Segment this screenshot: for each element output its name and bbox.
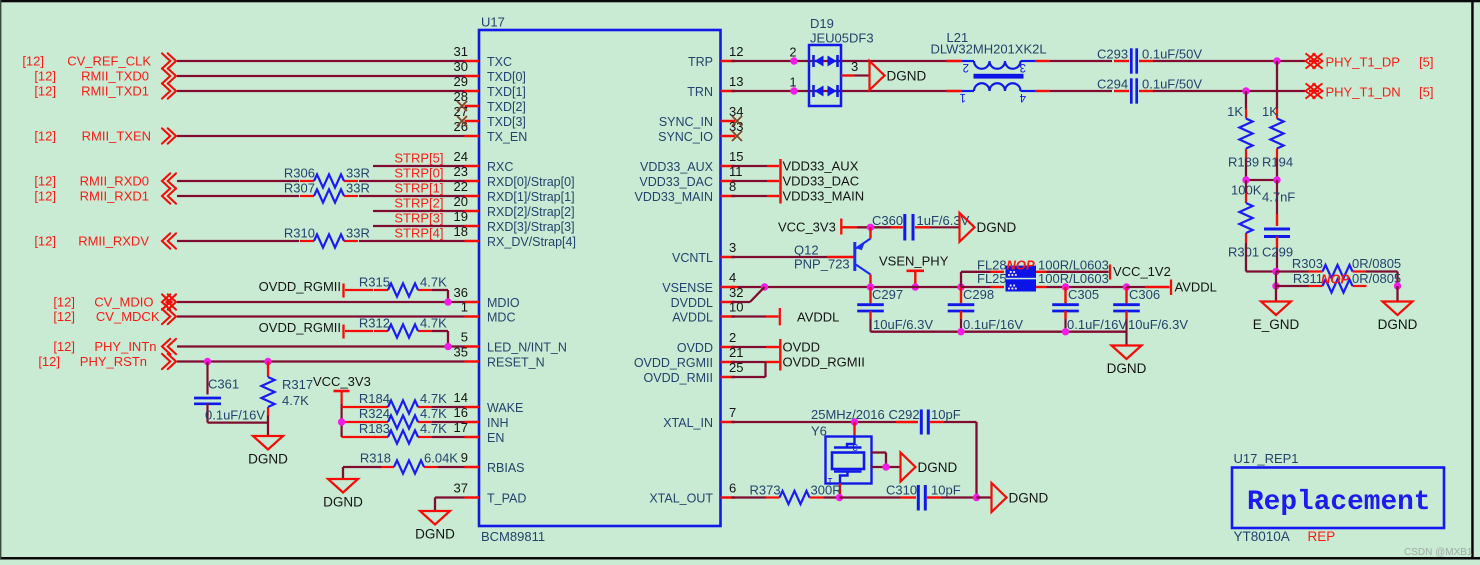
svg-text:VDD33_DAC: VDD33_DAC [639, 175, 713, 189]
svg-text:RESET_N: RESET_N [487, 356, 545, 370]
junction VSENSE/DVDDL [761, 283, 768, 290]
resistor R306 33R [300, 180, 314, 182]
pin 27 TXD[3] (left) [465, 120, 480, 123]
svg-text:[12]: [12] [22, 54, 44, 69]
resistor R301 100K [1245, 180, 1247, 193]
svg-text:1: 1 [790, 76, 797, 90]
junction D19 pin2 [790, 57, 797, 64]
svg-text:TXD[0]: TXD[0] [487, 70, 526, 84]
pin 3 D19 to ground [841, 74, 855, 76]
capacitor C305 0.1uF/16V [1064, 287, 1066, 303]
capacitor C293 0.1uF/50V [1114, 60, 1129, 62]
svg-text:TRN: TRN [687, 85, 713, 99]
junction Y6 case [882, 463, 889, 470]
wire R301 bottom [1245, 243, 1247, 272]
no-connect X pin 27 [457, 116, 467, 126]
svg-text:YT8010A: YT8010A [1234, 529, 1290, 544]
svg-text:15: 15 [729, 149, 743, 164]
pin 2 OVDD (right) [721, 346, 736, 349]
capacitor C299 4.7nF [1276, 180, 1278, 214]
svg-text:[12]: [12] [34, 174, 56, 189]
svg-text:10uF/6.3V: 10uF/6.3V [873, 317, 933, 332]
svg-text:CV_REF_CLK: CV_REF_CLK [67, 54, 151, 69]
svg-text:0.1uF/16V: 0.1uF/16V [1067, 317, 1127, 332]
wire VCC_3V3 node [857, 226, 891, 228]
svg-text:R324: R324 [359, 406, 390, 421]
svg-text:MDIO: MDIO [487, 296, 520, 310]
svg-text:FL25: FL25 [977, 271, 1007, 286]
svg-text:RXD[0]/Strap[0]: RXD[0]/Strap[0] [487, 175, 575, 189]
wire RMII_TXD0 [177, 75, 465, 77]
wire C310 right [941, 496, 977, 498]
junction 100K row right [1273, 176, 1280, 183]
svg-text:[12]: [12] [53, 295, 75, 310]
svg-text:EN: EN [487, 431, 504, 445]
svg-text:DGND: DGND [1009, 490, 1049, 505]
svg-text:DVDDL: DVDDL [671, 296, 713, 310]
svg-text:VDD33_DAC: VDD33_DAC [783, 174, 860, 189]
pin 22 RXD[1]/Strap[1] (left) [465, 195, 480, 198]
wire rail mid [871, 286, 962, 288]
wire to DGND right column [1396, 286, 1398, 302]
resistor R324 4.7K [374, 421, 388, 423]
svg-text:SYNC_IO: SYNC_IO [658, 130, 713, 144]
capacitor C361 0.1uF/16V [206, 362, 208, 395]
ground DGND (R318) [328, 479, 358, 493]
svg-text:C298: C298 [963, 287, 994, 302]
wire CV_REF_CLK [177, 60, 465, 62]
svg-text:T_PAD: T_PAD [487, 492, 526, 506]
pin 19 RXD[3]/Strap[3] (left) [465, 225, 480, 228]
wire CV_MDIO [177, 301, 465, 303]
svg-text:CV_MDIO: CV_MDIO [94, 295, 153, 310]
svg-text:DGND: DGND [918, 460, 958, 475]
svg-text:2: 2 [790, 46, 797, 60]
pin 17 EN (left) [465, 436, 480, 439]
pin 31 TXC (left) [465, 60, 480, 63]
svg-text:9: 9 [461, 450, 468, 465]
power flag AVDDL (rail) [1170, 280, 1172, 296]
svg-text:TRP: TRP [688, 55, 713, 69]
svg-text:R189: R189 [1228, 155, 1259, 170]
pin 23 RXD[0]/Strap[0] (left) [465, 180, 480, 183]
pin 18 RX_DV/Strap[4] (left) [465, 240, 480, 243]
svg-text:4.7K: 4.7K [282, 393, 309, 408]
pin 4 VSENSE (right) [721, 286, 736, 289]
svg-text:31: 31 [454, 44, 468, 59]
wire TRP mid [1050, 60, 1112, 62]
pin 10 AVDDL (right) [721, 315, 736, 318]
svg-text:[12]: [12] [34, 129, 56, 144]
junction rail C306 [1123, 283, 1130, 290]
svg-text:AVDDL: AVDDL [672, 311, 713, 325]
svg-text:36: 36 [454, 285, 468, 300]
svg-text:SYNC_IN: SYNC_IN [659, 115, 713, 129]
svg-text:OVDD_RGMII: OVDD_RGMII [259, 279, 341, 294]
resistor R312 4.7K [374, 330, 388, 332]
svg-text:XTAL_OUT: XTAL_OUT [649, 492, 713, 506]
svg-text:4.7K: 4.7K [420, 316, 447, 331]
wire decoupling ground bus [871, 331, 1127, 333]
svg-text:VDD33_AUX: VDD33_AUX [640, 160, 714, 174]
capacitor C294 0.1uF/50V [1114, 90, 1129, 92]
svg-text:CSDN @MXB1: CSDN @MXB1 [1404, 547, 1473, 558]
svg-text:4.7K: 4.7K [420, 421, 447, 436]
junction VCC_3V3 / C360 / Q12 [867, 224, 874, 231]
svg-text:25MHz/2016: 25MHz/2016 [811, 407, 885, 422]
wire TRN mid [1050, 90, 1112, 92]
pin 36 MDIO (left) [465, 301, 480, 304]
no-connect X pin 33 [732, 131, 742, 141]
pin 5 LED_N/INT_N (left) [465, 345, 480, 348]
ferrite bead FL28 100R/L0603 (NOP) [1006, 266, 1037, 278]
svg-text:LED_N/INT_N: LED_N/INT_N [487, 341, 567, 355]
pin 28 TXD[2] (left) [465, 105, 480, 108]
svg-text:OVDD_RGMII: OVDD_RGMII [634, 356, 713, 370]
svg-text:VSEN_PHY: VSEN_PHY [879, 254, 949, 269]
svg-text:4: 4 [729, 270, 736, 285]
svg-text:C360: C360 [872, 213, 903, 228]
wire RMII_RXD0 left [177, 180, 299, 182]
junction C310/C292 ground [973, 494, 980, 501]
svg-text:VDD33_MAIN: VDD33_MAIN [783, 189, 865, 204]
ground DGND (C361/R317) [253, 436, 283, 450]
svg-text:C292: C292 [889, 407, 920, 422]
svg-text:DGND: DGND [1378, 317, 1418, 332]
svg-text:0.1uF/16V: 0.1uF/16V [205, 408, 265, 423]
ground DGND (crystal caps) [992, 483, 1007, 512]
svg-text:2: 2 [729, 330, 736, 345]
svg-text:7: 7 [729, 405, 736, 420]
svg-text:4.7nF: 4.7nF [1262, 190, 1295, 205]
svg-text:TX_EN: TX_EN [487, 130, 527, 144]
junction R312/LED_N [444, 343, 451, 350]
svg-text:R373: R373 [750, 483, 781, 498]
svg-text:TXD[1]: TXD[1] [487, 85, 526, 99]
wire rail into FL25 [961, 286, 991, 288]
svg-text:RXC: RXC [487, 160, 513, 174]
svg-text:[12]: [12] [34, 84, 56, 99]
svg-text:C293: C293 [1097, 47, 1128, 62]
wire VDD33_DAC [732, 180, 768, 182]
svg-text:0R/0805: 0R/0805 [1352, 271, 1401, 286]
svg-text:RX_DV/Strap[4]: RX_DV/Strap[4] [487, 235, 576, 249]
svg-text:[5]: [5] [1419, 55, 1433, 70]
ground DGND (R311) [1383, 302, 1413, 316]
svg-text:14: 14 [454, 390, 468, 405]
resistor R315 4.7K [374, 289, 388, 291]
junction R311 right [1394, 282, 1401, 289]
svg-text:AVDDL: AVDDL [797, 310, 839, 325]
diode D19 JEU05DF3 (ESD) [809, 45, 841, 106]
wire C361 to ground [208, 421, 269, 423]
svg-text:3: 3 [1020, 61, 1026, 73]
pin 13 TRN (right) [721, 90, 736, 93]
ground DGND (Y6 case) [901, 453, 916, 482]
wire OVDD_RGMII [732, 361, 766, 363]
op-amp U17 IC body BCM89811 [479, 30, 721, 526]
svg-text:10pF: 10pF [931, 407, 961, 422]
svg-text:TXC: TXC [487, 55, 512, 69]
wire RMII_RXD0 right [359, 180, 465, 182]
svg-text:C294: C294 [1097, 77, 1128, 92]
resistor R318 6.04K [380, 466, 394, 468]
svg-text:STRP[0]: STRP[0] [394, 166, 443, 181]
wire R315 to MDIO [432, 289, 448, 291]
pin 9 RBIAS (left) [465, 466, 480, 469]
svg-text:OVDD_RMII: OVDD_RMII [644, 371, 713, 385]
pin 12 TRP (right) [721, 60, 736, 63]
wire TRP left [732, 60, 963, 62]
svg-text:1K: 1K [1227, 104, 1243, 119]
wire RMII_RXD1 right [359, 195, 465, 197]
no-connect X pin 34 [732, 116, 742, 126]
power flag VDD33 bar [779, 159, 782, 204]
svg-text:R318: R318 [360, 451, 391, 466]
capacitor C292 10pF [896, 421, 918, 423]
junction TRP / R194 [1273, 57, 1280, 64]
wire C292 to corner [944, 421, 977, 423]
ground DGND (T_PAD) [420, 511, 450, 525]
wire R312 to LED_N [432, 330, 448, 332]
svg-text:1K: 1K [1262, 104, 1278, 119]
wire PHY_RSTn [177, 360, 465, 362]
junction D19 pin1 [790, 87, 797, 94]
junction rail C298 [957, 283, 964, 290]
svg-text:WAKE: WAKE [487, 401, 523, 415]
svg-text:3: 3 [852, 441, 858, 452]
wire RMII_RXDV left [177, 240, 299, 242]
svg-text:STRP[3]: STRP[3] [394, 211, 443, 226]
resistor R317 4.7K [267, 362, 269, 369]
svg-text:RMII_TXD1: RMII_TXD1 [81, 84, 149, 99]
svg-text:CV_MDCK: CV_MDCK [96, 309, 160, 324]
svg-text:C305: C305 [1068, 287, 1099, 302]
svg-text:VDD33_AUX: VDD33_AUX [783, 159, 859, 174]
svg-text:U17: U17 [481, 15, 505, 30]
svg-text:3: 3 [851, 59, 858, 74]
svg-text:6: 6 [729, 481, 736, 496]
resistor R183 4.7K [374, 436, 388, 438]
power flag AVDDL (pin10) [779, 308, 781, 325]
svg-text:PHY_INTn: PHY_INTn [94, 339, 156, 354]
svg-text:E_GND: E_GND [1253, 317, 1300, 332]
junction 100K row left [1242, 176, 1249, 183]
resistor R307 33R [300, 195, 314, 197]
resistor R310 33R [300, 240, 314, 242]
pin 6 XTAL_OUT (right) [721, 496, 736, 499]
svg-text:VCC_1V2: VCC_1V2 [1113, 264, 1171, 279]
svg-text:13: 13 [729, 74, 743, 89]
pin 34 SYNC_IN (right) [721, 120, 736, 123]
svg-text:JEU05DF3: JEU05DF3 [810, 31, 874, 46]
wire R189 top [1245, 91, 1247, 109]
svg-text:4: 4 [1019, 91, 1026, 103]
wire FL25 right rail [1036, 286, 1047, 288]
svg-text:0.1uF/50V: 0.1uF/50V [1142, 77, 1202, 92]
svg-text:4.7K: 4.7K [420, 406, 447, 421]
svg-text:PHY_RSTn: PHY_RSTn [80, 354, 147, 369]
svg-text:BCM89811: BCM89811 [481, 529, 545, 544]
svg-text:0.1uF/16V: 0.1uF/16V [963, 317, 1023, 332]
junction TRN / R189 [1242, 87, 1249, 94]
svg-text:DGND: DGND [887, 68, 927, 83]
pin 21 OVDD_RGMII (right) [721, 361, 736, 364]
svg-text:STRP[4]: STRP[4] [394, 226, 443, 241]
wire VCNTL [732, 256, 828, 258]
svg-text:33R: 33R [346, 166, 370, 181]
svg-text:DGND: DGND [248, 452, 288, 467]
wire TRP right [1153, 60, 1305, 62]
svg-text:U17_REP1: U17_REP1 [1234, 451, 1299, 466]
wire Y6 bottom pin [839, 484, 841, 498]
svg-text:[12]: [12] [34, 189, 56, 204]
resistor R373 300R [766, 496, 780, 498]
svg-text:R312: R312 [359, 316, 390, 331]
junction bus C305 [1062, 328, 1069, 335]
wire VDD33_AUX [732, 165, 768, 167]
wire VCC_3V3 pullup bus [341, 404, 343, 437]
svg-text:R315: R315 [359, 275, 390, 290]
svg-text:R306: R306 [284, 166, 315, 181]
junction PHY_RSTn / C361 [204, 358, 211, 365]
wire RMII_RXDV right [359, 240, 465, 242]
svg-text:[12]: [12] [53, 309, 75, 324]
wire R189/R194 join [1245, 159, 1247, 181]
junction bus C298 [957, 328, 964, 335]
svg-text:VCNTL: VCNTL [672, 251, 713, 265]
svg-text:MDC: MDC [487, 311, 515, 325]
capacitor C297 10uF/6.3V [869, 287, 871, 303]
pin 37 T_PAD (left) [465, 496, 480, 499]
svg-text:1: 1 [960, 91, 966, 103]
junction PHY_RSTn / R317 [264, 358, 271, 365]
wire XTAL_OUT left [732, 496, 767, 498]
wire FL28 branch [960, 272, 962, 287]
frame border [0, 0, 1480, 2]
svg-text:5: 5 [461, 330, 468, 345]
wire STRP[5] / node STRP[5] [373, 165, 465, 167]
junction R311 row [1272, 282, 1279, 289]
svg-text:RXD[2]/Strap[2]: RXD[2]/Strap[2] [487, 205, 575, 219]
svg-text:DGND: DGND [977, 220, 1017, 235]
svg-text:Replacement: Replacement [1247, 487, 1431, 518]
svg-text:0.1uF/50V: 0.1uF/50V [1142, 47, 1202, 62]
svg-text:[12]: [12] [53, 339, 75, 354]
wire RMII_RXD1 left [177, 195, 299, 197]
svg-text:VCC_3V3: VCC_3V3 [778, 220, 836, 235]
svg-text:PHY_T1_DN: PHY_T1_DN [1326, 85, 1401, 100]
junction VSEN_PHY [912, 283, 919, 290]
svg-text:12: 12 [729, 44, 743, 59]
svg-text:VCC_3V3: VCC_3V3 [313, 374, 371, 389]
svg-text:D19: D19 [810, 16, 834, 31]
resistor R194 1K [1276, 109, 1278, 119]
pin 15 VDD33_AUX (right) [721, 165, 736, 168]
pin 25 OVDD_RMII (right) [721, 376, 736, 379]
svg-text:37: 37 [454, 481, 468, 496]
svg-text:4.7K: 4.7K [420, 391, 447, 406]
svg-text:STRP[1]: STRP[1] [394, 181, 443, 196]
svg-text:[12]: [12] [34, 69, 56, 84]
svg-text:RBIAS: RBIAS [487, 461, 525, 475]
pin 33 SYNC_IO (right) [721, 135, 736, 138]
wire R303 right [1366, 270, 1398, 272]
svg-text:R301: R301 [1228, 245, 1259, 260]
power flag OVDD bar [779, 339, 781, 371]
svg-text:DGND: DGND [323, 495, 363, 510]
power flag VCC_1V2 [1109, 265, 1111, 280]
junction rail C297 [867, 283, 874, 290]
svg-text:OVDD_RGMII: OVDD_RGMII [259, 320, 341, 335]
off-page connector PHY_T1_DN [5] [1306, 83, 1323, 98]
svg-text:3: 3 [729, 240, 736, 255]
svg-text:C310: C310 [886, 483, 917, 498]
wire RMII_TXD1 [177, 90, 465, 92]
ground DGND (D19) [870, 61, 885, 90]
svg-text:VSENSE: VSENSE [662, 281, 713, 295]
pin 14 WAKE (left) [465, 406, 480, 409]
svg-text:PNP_723: PNP_723 [794, 257, 850, 272]
svg-text:2: 2 [963, 61, 969, 73]
wire XTAL_OUT mid [840, 496, 901, 498]
svg-text:RXD[1]/Strap[1]: RXD[1]/Strap[1] [487, 190, 575, 204]
junction R303 row [1272, 268, 1279, 275]
wire TRN right [1153, 90, 1305, 92]
svg-text:[12]: [12] [34, 234, 56, 249]
svg-text:VDD33_MAIN: VDD33_MAIN [635, 190, 714, 204]
svg-text:STRP[5]: STRP[5] [394, 151, 443, 166]
svg-text:R183: R183 [359, 421, 390, 436]
svg-text:R307: R307 [284, 181, 315, 196]
wire VDD33_MAIN [732, 195, 768, 197]
svg-text:XTAL_IN: XTAL_IN [663, 416, 713, 430]
wire VSENSE [738, 286, 871, 288]
wire CV_MDCK [177, 315, 465, 317]
svg-text:10uF/6.3V: 10uF/6.3V [1128, 317, 1188, 332]
svg-text:4.7K: 4.7K [420, 275, 447, 290]
svg-text:6.04K: 6.04K [424, 451, 458, 466]
junction XTAL_OUT / Y6 [836, 494, 843, 501]
svg-text:RMII_TXEN: RMII_TXEN [82, 129, 151, 144]
pin 32 DVDDL (right) [721, 301, 736, 304]
wire STRP[2] / node STRP[2] [373, 210, 465, 212]
capacitor C310 10pF [901, 496, 917, 498]
junction pullup bus / INH [338, 418, 345, 425]
wire STRP[3] / node STRP[3] [373, 225, 465, 227]
wire R317 bottom [267, 416, 269, 437]
capacitor C306 10uF/6.3V [1125, 287, 1127, 303]
pin 7 XTAL_IN (right) [721, 421, 736, 424]
pin 24 RXC (left) [465, 165, 480, 168]
svg-text:[5]: [5] [1419, 85, 1433, 100]
svg-text:10pF: 10pF [931, 483, 961, 498]
svg-text:R311: R311 [1293, 271, 1323, 286]
resistor R303 0R/0805 [1276, 270, 1310, 272]
svg-text:REP: REP [1308, 529, 1336, 544]
pin 20 RXD[2]/Strap[2] (left) [465, 210, 480, 213]
svg-text:100R/L0603: 100R/L0603 [1038, 271, 1109, 286]
svg-text:DGND: DGND [415, 527, 455, 542]
wire Q12 emitter stub [869, 227, 871, 238]
pin 16 INH (left) [465, 421, 480, 424]
wire PHY_INTn [177, 345, 465, 347]
svg-text:RMII_RXDV: RMII_RXDV [78, 234, 149, 249]
svg-text:RXD[3]/Strap[3]: RXD[3]/Strap[3] [487, 220, 575, 234]
svg-text:NOP: NOP [1007, 258, 1036, 273]
svg-text:24: 24 [454, 149, 468, 164]
svg-text:C297: C297 [872, 287, 903, 302]
